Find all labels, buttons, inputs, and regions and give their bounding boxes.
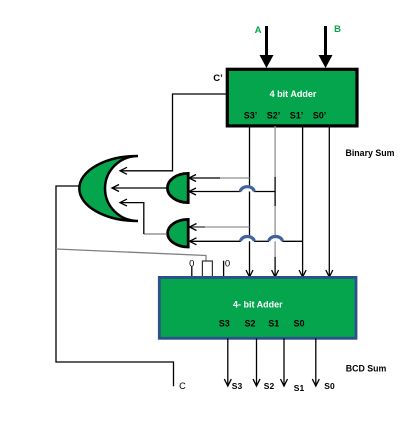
svg-text:A: A [255,25,262,36]
label BCD Sum [346,364,387,374]
pin label S2 [244,318,255,328]
svg-text:B: B [334,24,341,35]
constant 0 input pin 1 [189,258,194,277]
pin label S3 [219,318,230,328]
svg-text:C’: C’ [213,73,223,84]
wire G1 output branch to U2 input (diagonal) [56,249,206,261]
wire G1 output to carry C and adder carry-in [56,186,174,386]
input arrow A [260,26,274,68]
constant 0 input pin 2 [224,258,231,277]
hop bump J3 [269,237,283,242]
output label S1 [294,383,305,393]
wire S3' vertical [246,126,253,277]
svg-text:S2: S2 [244,318,255,328]
svg-text:Binary Sum: Binary Sum [346,148,395,158]
carry-in terminal box [202,261,212,277]
svg-text:0: 0 [225,258,230,269]
wire G2 input 1 from S3' [189,175,250,182]
wire G3 output to G1 [120,199,167,234]
output wire S2 [253,338,260,386]
svg-text:S3’: S3’ [244,111,258,121]
pin label S0 [293,318,304,328]
hop bump J2 [241,237,255,242]
svg-text:S0’: S0’ [313,111,327,121]
wire S2' vertical [272,126,279,277]
or-gate G1 [79,156,138,221]
svg-text:4 bit Adder: 4 bit Adder [270,89,317,99]
svg-text:0: 0 [189,258,194,269]
svg-text:S0: S0 [324,381,335,391]
node label C' [213,73,223,84]
wire G3 input 2 from S1' with hops over S3' and S2' [190,238,303,245]
input arrow B [319,26,333,68]
node label B [334,24,341,35]
pin label S3' [244,111,258,121]
wire S1' vertical [299,126,306,277]
svg-text:S2: S2 [264,381,275,391]
wire C' from U1 to OR gate [120,94,228,174]
wire G3 input 1 from S3' [190,224,250,231]
and-gate G2 [167,173,188,202]
label Binary Sum [346,148,395,158]
wire G2 input 2 from S2' with hop over S3' [189,188,275,195]
and-gate G3 [168,219,189,247]
wire S0' vertical [326,126,333,277]
4-bit adder U2 (BCD correction adder) [159,277,356,338]
hop bump J1 [241,187,255,192]
output wire S3 [224,338,231,386]
svg-text:S3: S3 [219,318,230,328]
output wire S0 [312,338,319,386]
node label C [179,381,186,391]
pin label S0' [313,111,327,121]
svg-text:S2’: S2’ [267,111,281,121]
svg-text:S1: S1 [294,383,305,393]
output label S2 [264,381,275,391]
pin label S2' [267,111,281,121]
svg-text:S3: S3 [232,381,243,391]
svg-text:BCD Sum: BCD Sum [346,364,387,374]
output label S3 [232,381,243,391]
pin label S1 [268,318,279,328]
output wire S1 [281,338,288,386]
svg-text:C: C [179,381,186,391]
4-bit adder U1 (binary adder) [227,69,357,126]
svg-text:S0: S0 [293,318,304,328]
node label A [255,25,262,36]
output label S0 [324,381,335,391]
svg-text:S1: S1 [268,318,279,328]
pin label S1' [290,111,304,121]
svg-text:4- bit Adder: 4- bit Adder [233,299,283,309]
svg-text:S1’: S1’ [290,111,304,121]
wire G2 output to G1 [112,185,168,192]
